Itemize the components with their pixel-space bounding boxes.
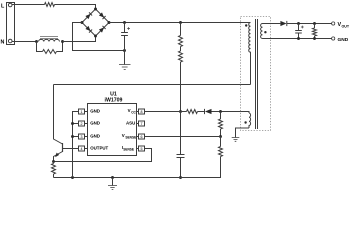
node aux phase dot — [244, 121, 246, 123]
svg-text:iW1709: iW1709 — [105, 98, 123, 104]
wire N to bridge bottom — [63, 36, 96, 42]
svg-text:U1: U1 — [110, 91, 117, 97]
transformer T1 core — [256, 19, 258, 129]
U1 pin 5 box — [137, 146, 145, 151]
wire R5 to D5 — [198, 111, 205, 113]
wire R7 to rail — [54, 157, 221, 178]
wire L line left — [12, 4, 45, 6]
resistor R6 sense upper — [219, 119, 223, 129]
node vcc cap gnd — [179, 176, 182, 179]
resistor R3 startup upper — [179, 36, 183, 47]
diode D6 output rectifier — [280, 21, 286, 26]
resistor R7 sense lower — [219, 147, 223, 157]
svg-text:8: 8 — [141, 110, 143, 114]
node aux divider tap — [219, 110, 222, 113]
svg-text:SENSE: SENSE — [125, 135, 136, 139]
svg-text:OUT: OUT — [342, 24, 350, 28]
wire aux to ground — [236, 128, 250, 138]
diode BR1 bottom-left — [85, 26, 92, 33]
node rail gnd pins — [71, 176, 74, 179]
svg-text:V: V — [122, 133, 125, 138]
svg-text:GND: GND — [90, 134, 100, 139]
wire N line left — [12, 41, 37, 43]
svg-text:3: 3 — [81, 135, 83, 139]
U1 pin 8 box — [137, 109, 145, 114]
svg-text:GND: GND — [90, 109, 100, 114]
wire startup chain — [180, 23, 182, 112]
wire emitter to resistor — [53, 162, 55, 164]
resistor R2 parallel damper — [37, 42, 63, 54]
node rail ground sym — [111, 176, 114, 179]
node bridge right — [108, 21, 111, 24]
node vsense — [219, 135, 222, 138]
svg-text:5: 5 — [141, 147, 143, 151]
svg-text:ASU: ASU — [126, 121, 135, 126]
node load top — [313, 22, 316, 25]
node N-choke left — [35, 40, 38, 43]
transformer T1 secondary winding — [261, 24, 263, 39]
svg-text:V: V — [128, 108, 131, 113]
U1 pin 4 box — [79, 146, 88, 151]
svg-text:6: 6 — [141, 135, 143, 139]
node pin3 join — [71, 135, 74, 138]
U1 pin 1 box — [79, 109, 88, 114]
wire divider top — [220, 112, 222, 120]
wire R6 to vsense node — [220, 129, 222, 137]
wire D5 to aux — [212, 112, 250, 114]
diode BR1 top-right — [99, 12, 106, 19]
resistor R9 load — [313, 24, 317, 39]
wire gnd pins bus — [73, 112, 79, 178]
wire secondary top to diode — [263, 23, 281, 25]
svg-text:GND: GND — [338, 37, 349, 43]
bridge rectifier BR1 frame — [82, 9, 109, 36]
node N-choke right — [61, 40, 64, 43]
node bridge left — [81, 21, 84, 24]
node bulk cap top — [123, 21, 126, 24]
ground primary G1 — [119, 51, 131, 70]
wire pin2 stub — [73, 123, 79, 125]
svg-text:4: 4 — [81, 147, 83, 151]
node emitter — [52, 160, 55, 163]
transformer T1 primary winding — [249, 23, 251, 85]
inductor L1 choke coil — [39, 39, 60, 41]
svg-text:CC: CC — [131, 110, 136, 114]
op-amp U1 body — [88, 104, 137, 156]
svg-text:OUTPUT: OUTPUT — [90, 146, 108, 151]
svg-text:GND: GND — [90, 121, 100, 126]
ground primary G2 — [108, 178, 117, 190]
svg-text:N: N — [1, 39, 5, 45]
node vcc — [179, 110, 182, 113]
wire DC+ rail — [109, 22, 251, 24]
resistor R1 — [45, 3, 55, 7]
transformer T1 aux winding — [249, 113, 251, 128]
svg-text:2: 2 — [81, 122, 83, 126]
U1 pin 7 box — [137, 121, 145, 126]
U1 pin 2 box — [79, 121, 88, 126]
svg-text:1: 1 — [81, 110, 83, 114]
transformer T1 shield box — [241, 17, 271, 131]
capacitor C1 bulk — [121, 23, 130, 51]
diode D5 vcc rectifier — [205, 109, 212, 114]
U1 pin 3 box — [79, 134, 88, 139]
resistor R8 emitter sense — [52, 164, 56, 175]
wire vsense node down — [220, 137, 222, 147]
wire pin3 stub — [73, 136, 79, 138]
U1 pin 6 box — [137, 134, 145, 139]
choke core bars — [40, 37, 58, 39]
transistor Q1 base bar — [62, 143, 64, 152]
transistor Q1 collector wire — [54, 85, 63, 145]
svg-text:L: L — [1, 3, 5, 9]
wire R8 to rail — [53, 174, 55, 178]
transistor Q1 emitter — [54, 152, 63, 162]
terminal VOUT — [332, 22, 335, 25]
svg-text:SENSE: SENSE — [123, 147, 134, 151]
wire bridge minus to ground — [73, 23, 125, 51]
node output cap top — [297, 22, 300, 25]
wire primary return to collector — [54, 84, 251, 86]
transistor Q1 base wire to pin4 — [63, 148, 79, 150]
node bridge top — [94, 8, 97, 11]
wire vout rail — [287, 23, 332, 25]
input connector J1 — [7, 3, 15, 45]
node load bottom — [313, 37, 316, 40]
resistor R4 startup lower — [179, 51, 183, 62]
terminal GND out — [332, 37, 335, 40]
node primary phase dot — [245, 24, 247, 26]
node pin2 join — [71, 122, 74, 125]
node bridge bottom — [94, 35, 97, 38]
node secondary phase dot — [264, 31, 266, 33]
node cap bottom — [123, 49, 126, 52]
diode BR1 bottom-right — [99, 26, 106, 33]
ground aux G3 — [232, 138, 240, 142]
resistor R5 vcc feed — [187, 110, 198, 114]
wire L line right to bridge top — [55, 5, 96, 10]
node output cap bottom — [297, 37, 300, 40]
node startup top — [179, 21, 182, 24]
wire isense pin5 — [54, 149, 152, 162]
wire vcc pin to node — [145, 111, 187, 113]
svg-text:7: 7 — [141, 122, 143, 126]
diode BR1 top-left — [85, 12, 92, 19]
wire vsense pin6 — [145, 136, 221, 138]
wire secondary bottom gnd rail — [263, 38, 332, 40]
capacitor C3 output — [295, 24, 304, 39]
capacitor C2 vcc — [177, 112, 185, 178]
